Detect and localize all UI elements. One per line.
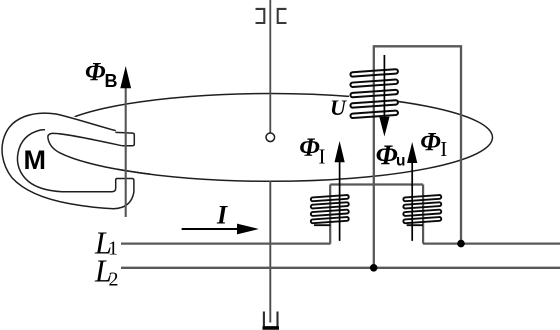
svg-text:Φ: Φ [420, 127, 441, 156]
line L1 (left segment) [121, 242, 331, 244]
spindle shaft (top) [269, 0, 271, 133]
flux arrow Phi_u (down) [383, 55, 385, 118]
current arrow I [182, 228, 239, 230]
flux arrow Phi_B [125, 88, 127, 217]
brake magnet M: white silhouette backing [0, 112, 136, 210]
line L2 [121, 267, 560, 269]
white backing of voltage coil [349, 68, 399, 116]
right current coil winding [403, 195, 441, 225]
magnet inner opening outline [17, 130, 62, 192]
magnet outer outline, upper arm edge and lower pole hook [2, 113, 134, 209]
svg-text:I: I [319, 144, 326, 168]
right current coil vertical lead [422, 185, 424, 244]
pivot circle at disc centre [266, 133, 275, 142]
flux arrow Phi_I (right) [411, 161, 413, 241]
flux arrow Phi_I (left) [339, 160, 341, 241]
bottom bearing cup [264, 312, 278, 328]
magnet upper pole face [115, 132, 134, 145]
wire linking the two current coils [330, 183, 423, 185]
voltage coil U winding [350, 69, 398, 118]
disc edge through magnet gap (left tip of disc) [48, 138, 150, 174]
left current coil winding [311, 195, 349, 225]
top bearing bracket right [278, 9, 287, 23]
svg-text:Φ: Φ [85, 58, 106, 87]
svg-text:B: B [105, 71, 118, 91]
line L1 (right segment) [423, 242, 560, 244]
junction dot on L1 [457, 240, 465, 248]
svg-text:I: I [216, 200, 228, 229]
disc (aluminium disc, ellipse outline) [49, 93, 493, 181]
svg-text:Φ: Φ [299, 133, 320, 162]
svg-text:U: U [330, 95, 347, 120]
svg-text:Φ: Φ [376, 141, 398, 172]
svg-text:M: M [24, 145, 47, 175]
svg-text:I: I [440, 137, 447, 161]
junction dot on L2 [370, 264, 378, 272]
voltage coil lead down to L2 [373, 45, 375, 268]
left current coil vertical lead [329, 185, 331, 244]
top bearing bracket left [256, 9, 265, 23]
svg-text:2: 2 [109, 268, 119, 290]
spindle shaft (bottom) [269, 181, 271, 323]
bottom bearing cup base [263, 326, 280, 329]
magnet arm lower edge (over disc) [48, 133, 122, 145]
svg-text:u: u [396, 152, 405, 169]
voltage coil loop wire (top + right side) [374, 46, 461, 243]
